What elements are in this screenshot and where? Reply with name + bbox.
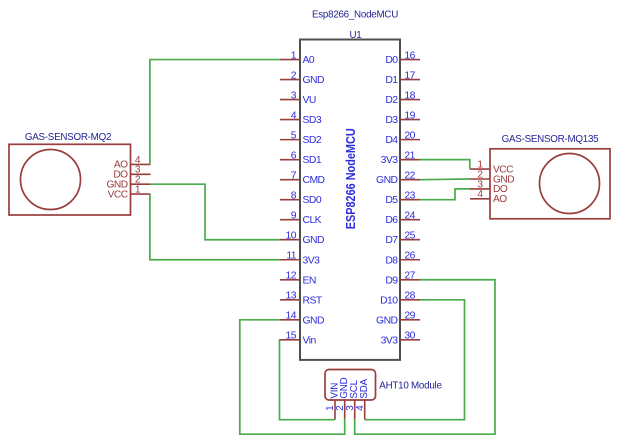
- svg-text:D7: D7: [385, 235, 398, 246]
- svg-text:23: 23: [404, 191, 415, 202]
- svg-text:GND: GND: [303, 315, 324, 326]
- svg-text:8: 8: [291, 191, 297, 202]
- svg-text:11: 11: [286, 251, 296, 262]
- svg-text:SD0: SD0: [303, 195, 322, 206]
- wire U1 Vin to AHT10 VIN: [280, 340, 336, 420]
- svg-text:D5: D5: [385, 195, 398, 206]
- svg-text:GAS-SENSOR-MQ2: GAS-SENSOR-MQ2: [25, 132, 111, 143]
- svg-text:D10: D10: [380, 295, 398, 306]
- svg-text:3V3: 3V3: [381, 155, 399, 166]
- U1 pin 9 CLK: [280, 211, 322, 227]
- U1 pin 7 CMD: [280, 171, 325, 187]
- wire U1 D10 to AHT10 SDA: [365, 300, 465, 420]
- wire U1 GND pin22 to MQ135 GND: [420, 178, 470, 181]
- wire MQ2 GND to U1 GND pin10: [150, 184, 280, 240]
- svg-text:15: 15: [286, 331, 297, 342]
- U1 pin 3 VU: [280, 90, 316, 106]
- U1 pin 10 GND: [280, 231, 324, 247]
- U1 pin 8 SD0: [280, 191, 322, 207]
- sensor MQ2 pin 2 GND: [106, 175, 150, 191]
- wire U1 GND pin14 to AHT10 GND: [240, 320, 345, 434]
- svg-text:D4: D4: [385, 135, 398, 146]
- svg-text:26: 26: [404, 251, 415, 262]
- svg-text:D3: D3: [385, 115, 398, 126]
- wire U1 D9 to AHT10 SCL: [355, 280, 495, 434]
- svg-text:24: 24: [404, 211, 415, 222]
- svg-text:21: 21: [404, 151, 415, 162]
- U1 pin 22 GND: [376, 171, 420, 187]
- wire U1 3V3 pin21 to MQ135 VCC: [420, 160, 470, 169]
- svg-text:VU: VU: [303, 95, 316, 106]
- op-amp U1 : ESP8266 NodeMCU module body: [300, 40, 400, 360]
- svg-text:A0: A0: [303, 55, 315, 66]
- svg-text:GAS-SENSOR-MQ135: GAS-SENSOR-MQ135: [502, 134, 600, 145]
- svg-text:2: 2: [291, 70, 297, 81]
- wire MQ2 VCC to U1 3V3 pin11: [150, 194, 280, 260]
- svg-text:13: 13: [286, 291, 297, 302]
- svg-text:SDA: SDA: [359, 378, 370, 398]
- svg-text:5: 5: [291, 131, 297, 142]
- U1 pin 18 D2: [385, 90, 420, 106]
- svg-text:VCC: VCC: [108, 189, 128, 200]
- svg-text:U1: U1: [349, 30, 361, 41]
- svg-text:9: 9: [291, 211, 297, 222]
- svg-text:SD2: SD2: [303, 135, 322, 146]
- U1 pin 29 GND: [376, 311, 420, 327]
- U1 pin 23 D5: [385, 191, 420, 207]
- sensor MQ2 pin 1 VCC: [108, 185, 151, 201]
- sensor MQ135 body: [490, 149, 610, 219]
- U1 pin 24 D6: [385, 211, 420, 227]
- sensor MQ135 pin 3 DO: [470, 179, 508, 195]
- U1 pin 12 EN: [280, 271, 316, 287]
- svg-text:7: 7: [291, 171, 297, 182]
- U1 pin 20 D4: [385, 131, 420, 147]
- wire U1 D5 to MQ135 DO: [420, 189, 470, 200]
- svg-text:SD3: SD3: [303, 115, 322, 126]
- svg-text:Esp8266_NodeMCU: Esp8266_NodeMCU: [312, 9, 398, 20]
- svg-text:16: 16: [404, 50, 415, 61]
- svg-text:4: 4: [355, 405, 366, 411]
- svg-text:Vin: Vin: [303, 335, 317, 346]
- svg-text:D9: D9: [385, 275, 398, 286]
- svg-text:17: 17: [404, 70, 415, 81]
- svg-text:27: 27: [404, 271, 415, 282]
- svg-text:AO: AO: [493, 194, 507, 205]
- svg-text:14: 14: [286, 311, 297, 322]
- U1 pin 1 A0: [280, 50, 315, 66]
- U1 pin 5 SD2: [280, 131, 322, 147]
- svg-text:D2: D2: [385, 95, 398, 106]
- svg-text:GND: GND: [303, 235, 324, 246]
- U1 pin 16 D0: [385, 50, 420, 66]
- svg-text:RST: RST: [303, 295, 323, 306]
- svg-text:3V3: 3V3: [303, 255, 321, 266]
- svg-text:28: 28: [404, 291, 415, 302]
- svg-text:4: 4: [477, 189, 483, 200]
- svg-text:AHT10 Module: AHT10 Module: [379, 381, 442, 392]
- svg-text:CLK: CLK: [303, 215, 322, 226]
- U1 pin 19 D3: [385, 111, 420, 127]
- svg-text:25: 25: [404, 231, 415, 242]
- svg-text:1: 1: [291, 50, 297, 61]
- U1 pin 17 D1: [385, 70, 420, 86]
- U1 pin 11 3V3: [280, 251, 320, 267]
- svg-text:19: 19: [404, 111, 415, 122]
- U1 pin 25 D7: [385, 231, 420, 247]
- svg-text:D1: D1: [385, 75, 398, 86]
- svg-text:GND: GND: [376, 175, 397, 186]
- U1 pin 13 RST: [280, 291, 323, 307]
- module AHT10 pin 1 VIN: [325, 383, 340, 420]
- svg-text:ESP8266 NodeMCU: ESP8266 NodeMCU: [344, 128, 358, 229]
- svg-text:22: 22: [404, 171, 415, 182]
- sensor MQ135 pin 1 VCC: [470, 160, 513, 176]
- U1 pin 30 3V3: [381, 331, 420, 347]
- svg-text:EN: EN: [303, 275, 316, 286]
- svg-text:GND: GND: [303, 75, 324, 86]
- module AHT10 pin 4 SDA: [355, 378, 370, 419]
- sensor MQ2 pin 4 AO: [114, 155, 151, 171]
- U1 pin 21 3V3: [381, 151, 420, 167]
- U1 pin 26 D8: [385, 251, 420, 267]
- wire U1 A0 to MQ2 AO: [150, 60, 280, 165]
- module AHT10 body: [325, 370, 376, 401]
- svg-text:3V3: 3V3: [381, 335, 399, 346]
- U1 pin 15 Vin: [280, 331, 316, 347]
- sensor MQ135 pin 2 GND: [470, 169, 514, 185]
- svg-text:1: 1: [135, 185, 141, 196]
- U1 pin 28 D10: [380, 291, 420, 307]
- module AHT10 pin 3 SCL: [345, 379, 360, 419]
- U1 pin 6 SD1: [280, 151, 322, 167]
- svg-text:18: 18: [404, 90, 415, 101]
- svg-text:6: 6: [291, 151, 297, 162]
- svg-text:30: 30: [404, 331, 415, 342]
- U1 pin 4 SD3: [280, 111, 322, 127]
- svg-text:GND: GND: [376, 315, 397, 326]
- svg-text:29: 29: [404, 311, 415, 322]
- sensor MQ2 body: [9, 144, 131, 215]
- U1 pin 27 D9: [385, 271, 420, 287]
- svg-text:20: 20: [404, 131, 415, 142]
- sensor MQ135 pin 4 AO: [470, 189, 507, 205]
- svg-text:CMD: CMD: [303, 175, 325, 186]
- svg-text:12: 12: [286, 271, 297, 282]
- sensor MQ2 pin 3 DO: [113, 165, 150, 181]
- U1 pin 14 GND: [280, 311, 324, 327]
- U1 pin 2 GND: [280, 70, 324, 86]
- svg-text:D8: D8: [385, 255, 398, 266]
- module AHT10 pin 2 GND: [335, 377, 350, 419]
- svg-text:D6: D6: [385, 215, 398, 226]
- svg-text:D0: D0: [385, 55, 398, 66]
- svg-text:SD1: SD1: [303, 155, 322, 166]
- svg-text:3: 3: [291, 90, 297, 101]
- svg-text:10: 10: [286, 231, 297, 242]
- svg-text:4: 4: [291, 111, 297, 122]
